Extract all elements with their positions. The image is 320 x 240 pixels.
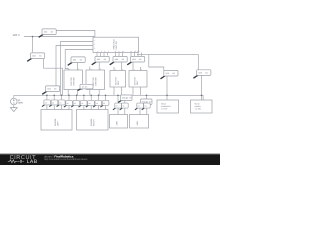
svg-text:13: 13 — [137, 50, 139, 53]
relay K9 — [49, 100, 58, 107]
wire junction drop to REL0 — [32, 37, 34, 53]
svg-text:DRV: DRV — [117, 80, 120, 85]
svg-text:11: 11 — [130, 50, 132, 53]
relay K12 — [71, 100, 80, 107]
wire M1 top pins — [77, 63, 79, 71]
wire right loop — [137, 55, 198, 71]
wire M3 bottom pins — [114, 87, 122, 95]
wire bus to row B switches — [77, 95, 106, 100]
ic block pin labels — [94, 39, 139, 53]
wire row B to rect B2 — [84, 106, 106, 110]
wire L2 feeds — [140, 95, 147, 114]
svg-text:LEFT: LEFT — [57, 120, 60, 126]
motor block R2 — [191, 100, 213, 113]
motor driver M4 — [129, 71, 147, 88]
wire S1 to block top — [56, 31, 95, 38]
svg-text:washer: washer — [195, 105, 202, 108]
wire top 120V bus — [24, 36, 95, 38]
wire block left pin 1 — [61, 42, 94, 96]
label box L1 — [118, 95, 132, 103]
relay K11 — [64, 100, 73, 107]
wire block left pin 3 — [65, 50, 93, 71]
wire M3 top pins — [114, 62, 122, 71]
relay K14 — [86, 100, 95, 107]
relay K19 — [135, 103, 144, 110]
svg-text:6: 6 — [104, 50, 105, 53]
relay K5 top — [39, 29, 57, 37]
svg-text:1: 1 — [94, 39, 95, 42]
svg-text:3: 3 — [94, 47, 95, 50]
voltage source V1 — [11, 98, 18, 105]
junction dots — [32, 36, 203, 96]
wire block bottom pins — [97, 53, 142, 57]
wire bus to pair boxes B3 — [118, 95, 125, 114]
svg-text:120 V: 120 V — [13, 33, 20, 37]
relay K1 — [68, 57, 86, 65]
svg-text:4: 4 — [97, 50, 98, 53]
wire main bus — [14, 95, 203, 100]
svg-text:Motor: Motor — [161, 102, 166, 105]
motor driver M2 — [86, 70, 105, 90]
wire M2 top pins — [90, 62, 99, 70]
svg-text:DRIVER: DRIVER — [73, 77, 76, 86]
label box L2 — [138, 99, 152, 107]
svg-text:DRV: DRV — [136, 80, 139, 85]
svg-text:5: 5 — [101, 50, 102, 53]
load block B1 — [41, 110, 72, 131]
svg-text:8: 8 — [115, 50, 116, 53]
relay K17 — [113, 103, 122, 110]
wire M4 bottom pins — [133, 87, 141, 95]
wire source to ground — [13, 105, 15, 108]
relay K10 — [57, 100, 66, 107]
wire REL0 drop — [44, 59, 63, 96]
svg-text:ARM: ARM — [116, 121, 119, 126]
ground — [10, 108, 17, 112]
relay K3 — [110, 56, 128, 64]
motor driver M3 — [110, 71, 126, 88]
svg-text:xx xx: xx xx — [82, 86, 88, 89]
relay K13 — [79, 100, 88, 107]
circuitlab logo — [8, 155, 38, 165]
svg-text:Motor: Motor — [195, 102, 200, 105]
load block B2 — [77, 110, 109, 131]
wire M4 top pins — [133, 62, 141, 71]
motor block R1 — [157, 100, 179, 113]
relay K20 — [142, 103, 151, 110]
relay K7 horizontal — [78, 84, 93, 90]
motor pin labels — [69, 68, 142, 72]
svg-text:120V: 120V — [18, 101, 24, 104]
wire block left pin 2 — [56, 46, 93, 86]
svg-text:ARM: ARM — [136, 121, 139, 126]
relay K2 — [92, 56, 110, 64]
wire M1 bottom pins — [68, 90, 77, 96]
load block B4 — [130, 115, 149, 129]
svg-text:http://circuitlab.com/c/ku546/: http://circuitlab.com/c/ku546/final-robo… — [44, 158, 88, 161]
svg-text:9: 9 — [118, 50, 119, 53]
svg-text:UNO R3: UNO R3 — [115, 40, 118, 49]
svg-text:1.5 kW: 1.5 kW — [195, 108, 201, 111]
relay K15 — [93, 100, 102, 107]
svg-text:RIGHT: RIGHT — [93, 119, 96, 126]
relay KB right — [193, 70, 211, 78]
wire right inner — [149, 55, 164, 71]
relay K6 mid — [42, 86, 60, 94]
svg-text:12: 12 — [134, 50, 136, 53]
svg-text:1.5 kW: 1.5 kW — [161, 108, 167, 111]
relay K0 — [27, 53, 45, 61]
wire M2 bottom pins — [90, 90, 99, 96]
motor driver M1 — [64, 70, 83, 90]
wire bus to row A switches — [47, 95, 69, 100]
relay K16 — [100, 100, 109, 107]
svg-text:LAB: LAB — [27, 159, 38, 165]
bottom attribution bar — [0, 154, 220, 165]
svg-text:DRIVER: DRIVER — [95, 77, 98, 86]
wire REL A to motor R1 — [166, 76, 168, 100]
relay KA right — [161, 70, 179, 78]
svg-text:windshield: windshield — [161, 105, 170, 108]
ic block U1 — [93, 37, 139, 52]
load block B3 — [110, 115, 128, 129]
relay K4 — [127, 56, 145, 64]
relay K18 — [120, 103, 129, 110]
svg-text:2: 2 — [94, 43, 95, 46]
relay K8 — [42, 100, 51, 107]
wire REL B to motor R2 — [201, 76, 203, 101]
svg-text:7: 7 — [108, 50, 109, 53]
wire row A to rect B1 — [47, 105, 69, 110]
wire source riser — [13, 95, 15, 98]
svg-text:10: 10 — [122, 50, 124, 53]
